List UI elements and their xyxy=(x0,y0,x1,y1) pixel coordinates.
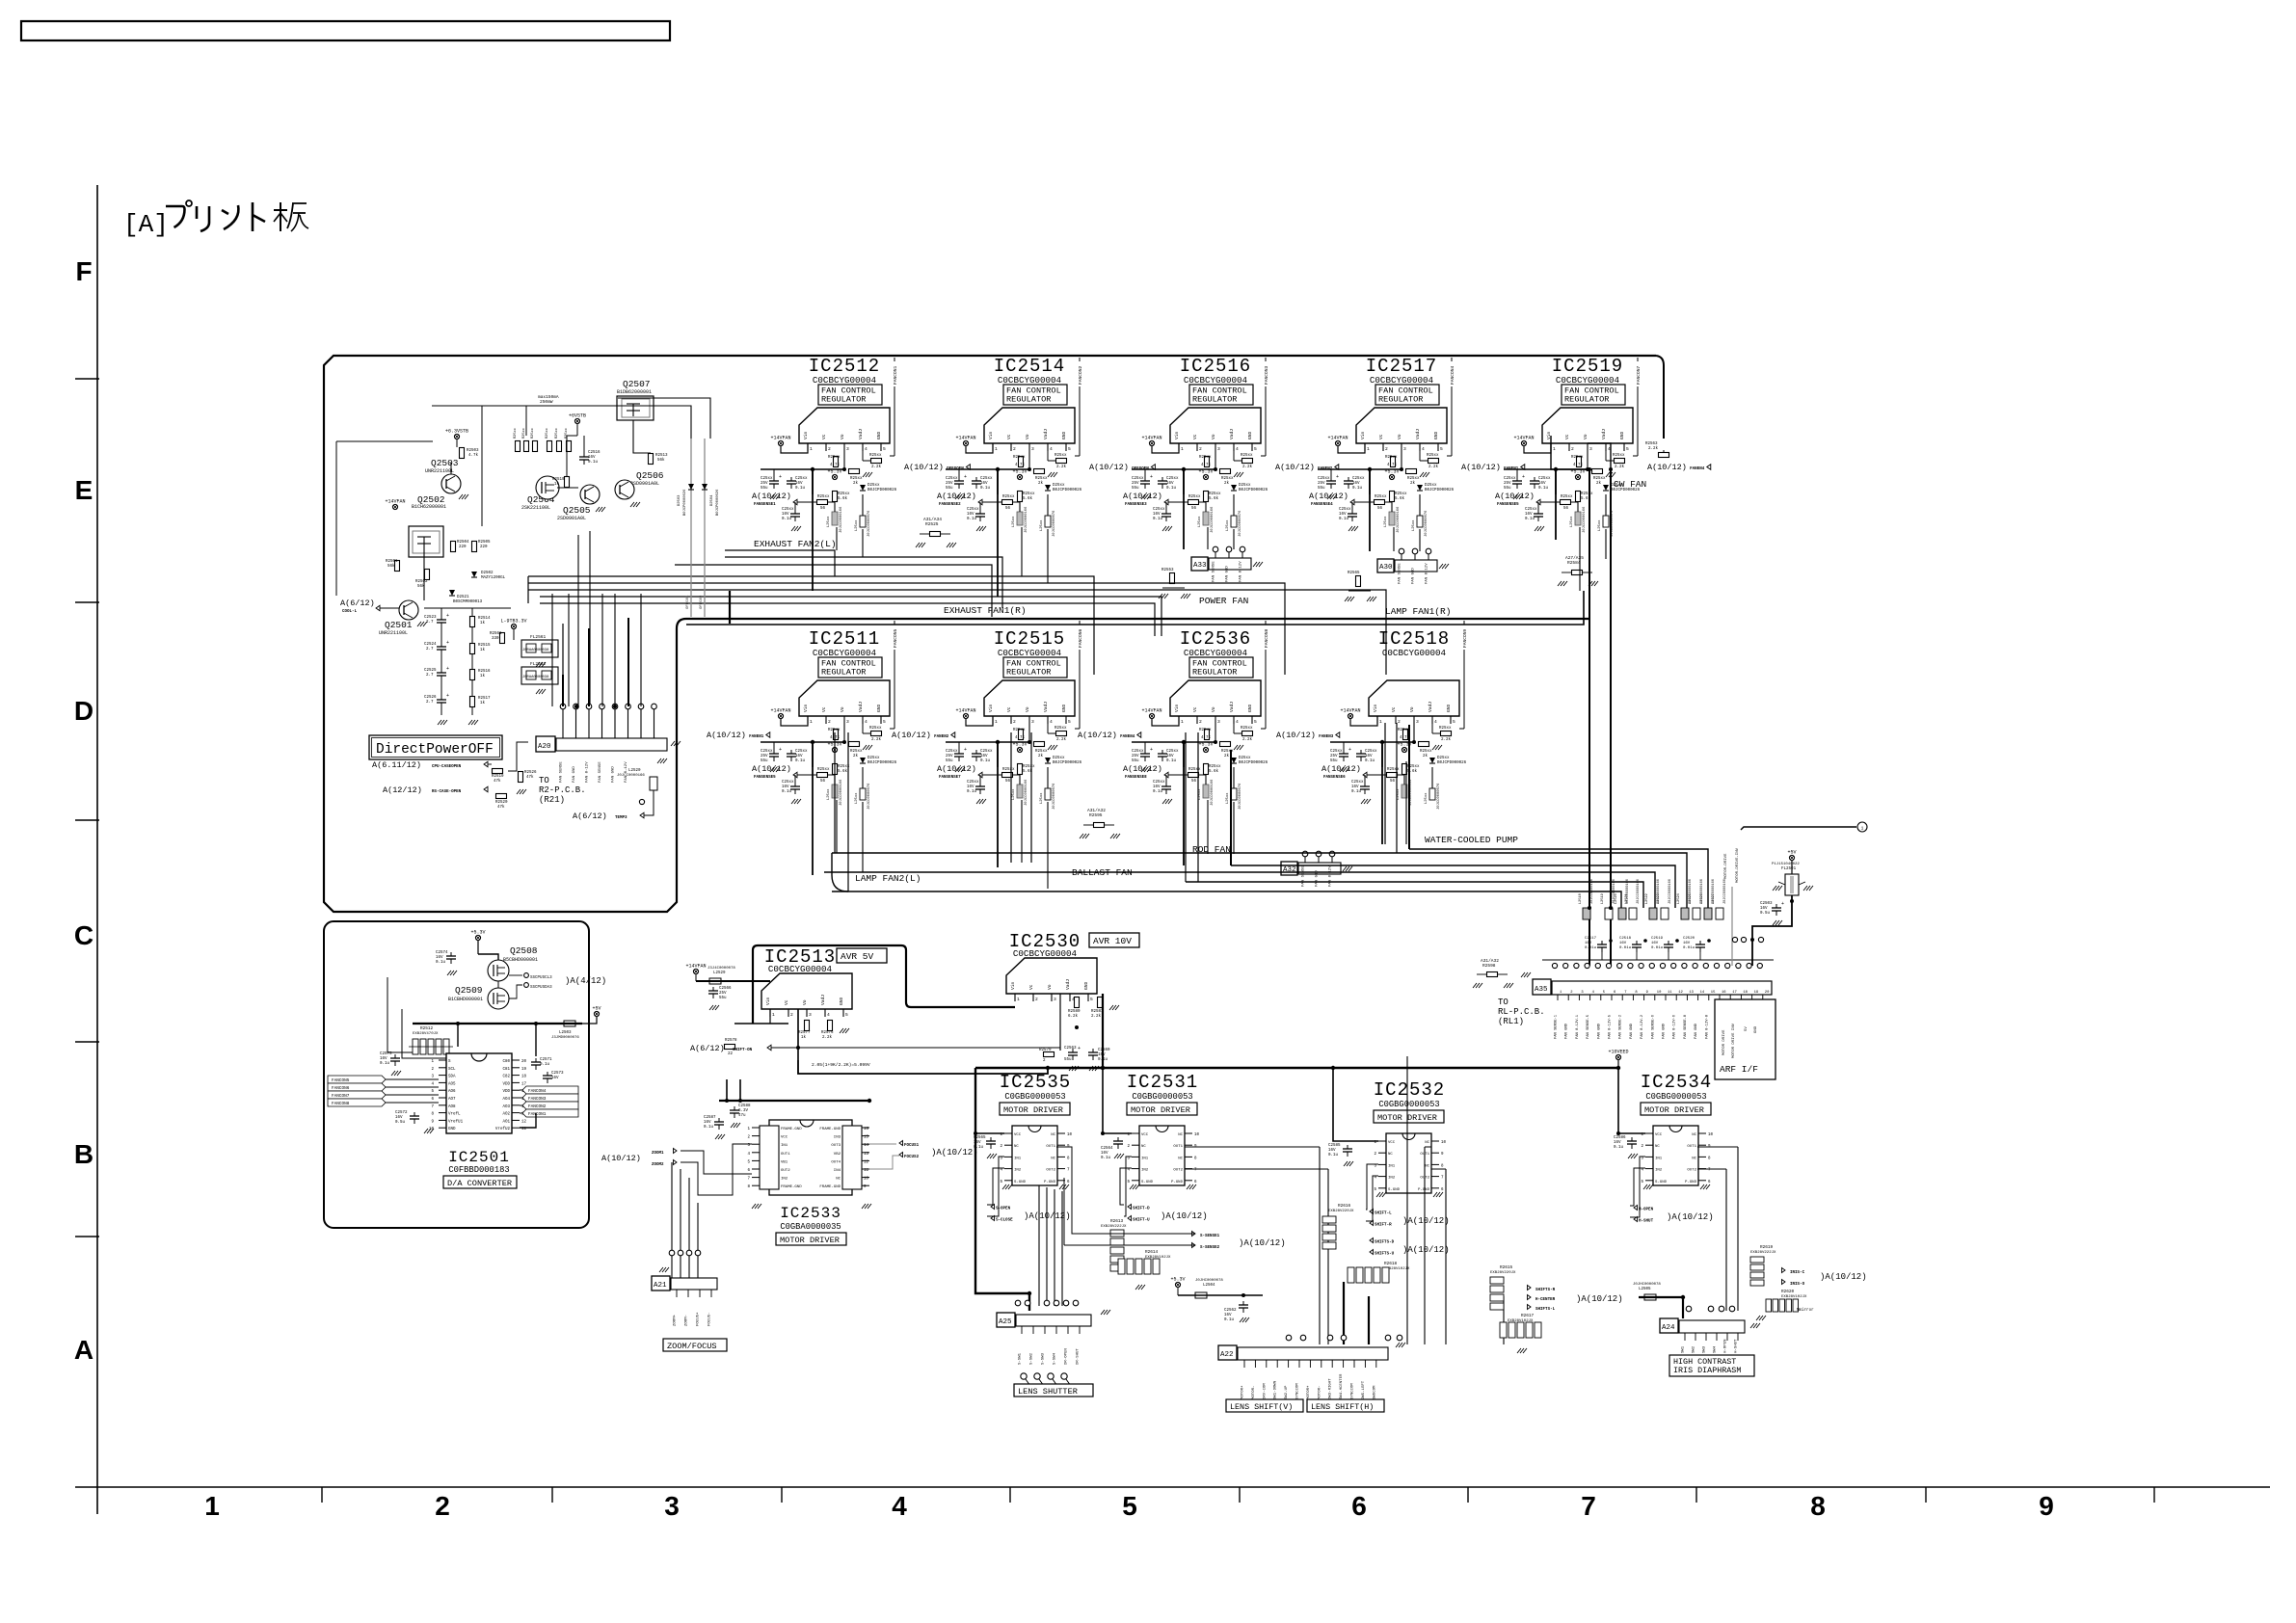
svg-text:2.2k: 2.2k xyxy=(1648,446,1659,451)
svg-text:EXHAUST FAN2(L): EXHAUST FAN2(L) xyxy=(754,539,837,549)
svg-text:Vc: Vc xyxy=(1192,706,1198,712)
svg-text:SW1: SW1 xyxy=(1682,1345,1686,1353)
capacitor C2566 xyxy=(712,987,714,991)
svg-text:C: C xyxy=(74,920,93,950)
resistor IC2514 2.2k xyxy=(1047,451,1049,461)
svg-text:L2503: L2503 xyxy=(559,1031,572,1035)
svg-text:4.7k: 4.7k xyxy=(1201,463,1212,467)
svg-text:C2587: C2587 xyxy=(704,1116,716,1120)
svg-text:L2529: L2529 xyxy=(713,971,726,975)
svg-text:L25xx: L25xx xyxy=(1226,519,1230,531)
svg-text:C2503: C2503 xyxy=(1760,902,1773,906)
wire xyxy=(997,742,999,867)
svg-text:C2574: C2574 xyxy=(436,951,448,955)
IC2533 body xyxy=(769,1120,852,1195)
svg-text:0.1u: 0.1u xyxy=(436,961,446,965)
svg-text:0.1u: 0.1u xyxy=(1153,790,1163,794)
svg-text:16V: 16V xyxy=(1760,907,1768,911)
svg-text:0.1u: 0.1u xyxy=(974,1146,984,1150)
wire xyxy=(423,551,425,600)
svg-text:FAN 8-12V-6: FAN 8-12V-6 xyxy=(1673,1014,1677,1039)
svg-text:R2525: R2525 xyxy=(925,521,939,527)
diode xyxy=(860,485,866,491)
svg-text:16: 16 xyxy=(1722,991,1726,995)
svg-text:C0GBG0000053: C0GBG0000053 xyxy=(1132,1092,1192,1102)
wire IC2532 in loop xyxy=(1366,1164,1378,1210)
svg-text:L25xx: L25xx xyxy=(1570,516,1574,527)
wire zoom bundle xyxy=(681,1151,752,1174)
svg-text:R2553: R2553 xyxy=(1161,569,1174,572)
border corner to R2563 xyxy=(1656,356,1664,439)
svg-text:MAZY1200GL: MAZY1200GL xyxy=(481,576,506,580)
svg-text:Q2501: Q2501 xyxy=(385,620,413,630)
diode xyxy=(1231,485,1237,491)
resistor IC2519 2.2k xyxy=(1605,451,1607,461)
svg-text:Vo: Vo xyxy=(840,706,845,712)
svg-text:5V: 5V xyxy=(1745,1026,1749,1031)
svg-text:0.1u: 0.1u xyxy=(967,518,977,521)
svg-text:L25xx: L25xx xyxy=(1226,792,1230,804)
svg-text:S-SW1: S-SW1 xyxy=(1019,1352,1023,1365)
svg-text:ZOOM+: ZOOM+ xyxy=(674,1314,678,1326)
svg-text:GND: GND xyxy=(1433,431,1439,439)
svg-text:R25xx: R25xx xyxy=(1613,454,1625,458)
svg-text:2.2k: 2.2k xyxy=(1056,465,1067,469)
svg-text:1k: 1k xyxy=(480,648,486,652)
svg-text:0.5u: 0.5u xyxy=(395,1121,406,1125)
svg-text:OUT1: OUT1 xyxy=(1046,1145,1055,1149)
svg-text:+6VSTB: +6VSTB xyxy=(569,413,586,419)
svg-text:J0JCC0000166: J0JCC0000166 xyxy=(1583,506,1587,533)
capacitor 55u xyxy=(1330,469,1332,477)
wire xyxy=(1393,527,1395,551)
power +5V xyxy=(1789,855,1794,860)
svg-text:55u: 55u xyxy=(719,997,727,1000)
svg-text:FANCON9: FANCON9 xyxy=(1462,628,1468,648)
inductor L25xx xyxy=(1417,516,1423,527)
svg-text:LENS SHIFT(V): LENS SHIFT(V) xyxy=(1230,1402,1293,1412)
svg-text:VCC: VCC xyxy=(1014,1133,1022,1137)
svg-text:NC: NC xyxy=(1692,1157,1696,1160)
svg-text:C2519: C2519 xyxy=(1651,937,1664,941)
svg-text:A(10/12): A(10/12) xyxy=(1461,463,1501,472)
svg-text:2: 2 xyxy=(1199,446,1202,452)
svg-text:C2563: C2563 xyxy=(1064,1047,1077,1051)
wire xyxy=(836,800,838,853)
resistor 2k xyxy=(1419,742,1429,747)
svg-text:FANEN2: FANEN2 xyxy=(934,735,949,739)
svg-text:5: 5 xyxy=(883,446,886,452)
svg-text:OUT4: OUT4 xyxy=(831,1160,841,1164)
resistor 5.6k xyxy=(833,492,838,502)
svg-text:Vin: Vin xyxy=(1360,431,1366,439)
svg-text:FL2501: FL2501 xyxy=(1781,867,1797,871)
resistor R2503 xyxy=(460,448,465,459)
svg-text:AVR 10V: AVR 10V xyxy=(1093,936,1132,946)
svg-text:16V: 16V xyxy=(704,1121,711,1125)
svg-text:18: 18 xyxy=(521,1076,527,1079)
wire sense xyxy=(1056,1147,1195,1234)
svg-text:ZOOM2: ZOOM2 xyxy=(652,1163,664,1167)
svg-text:R2514: R2514 xyxy=(478,617,491,621)
svg-text:14: 14 xyxy=(864,1144,869,1148)
resistor 56 xyxy=(1188,773,1199,778)
svg-text:C25xx: C25xx xyxy=(1365,750,1377,754)
inductor L25xx xyxy=(1203,512,1209,525)
svg-text:L2523: L2523 xyxy=(1657,893,1661,904)
svg-text:4: 4 xyxy=(892,1491,907,1521)
svg-text:FANCON2: FANCON2 xyxy=(1078,365,1083,385)
svg-text:FANCON5: FANCON5 xyxy=(332,1078,350,1083)
svg-text:EXB28V102JX: EXB28V102JX xyxy=(1781,1295,1807,1299)
connector A21 xyxy=(652,1276,670,1290)
svg-text:R25xx: R25xx xyxy=(1439,727,1452,731)
svg-text:J0JCC0000166: J0JCC0000166 xyxy=(1397,506,1401,533)
svg-text:Vin: Vin xyxy=(765,997,771,1005)
svg-text:FANCON7: FANCON7 xyxy=(1636,365,1642,385)
junction dot xyxy=(1075,1025,1079,1029)
capacitor 0.1u xyxy=(1165,783,1167,786)
label SHIFTS-D/SHIFTS-U A(10/12) xyxy=(1370,1238,1374,1243)
svg-text:+14VFAN: +14VFAN xyxy=(685,964,706,970)
svg-text:B0SCMM000013: B0SCMM000013 xyxy=(453,600,483,604)
svg-text:FRAME-GND: FRAME-GND xyxy=(819,1128,841,1131)
svg-text:VadJ: VadJ xyxy=(858,429,864,439)
label H-OPEN/H-SHUT A(10/12) xyxy=(1634,1206,1638,1211)
svg-text:J0JCC0000076: J0JCC0000076 xyxy=(1053,783,1056,810)
svg-text:C25xx: C25xx xyxy=(967,781,979,785)
power +14VFAN xyxy=(778,713,783,718)
svg-text:16V: 16V xyxy=(967,513,974,517)
ground xyxy=(752,1204,756,1209)
resistor 5.6k xyxy=(1402,764,1407,775)
wire xyxy=(1047,802,1049,889)
wire left motor bus xyxy=(975,1068,1029,1311)
svg-text:16V: 16V xyxy=(395,1116,403,1120)
wire xyxy=(797,1009,799,1060)
svg-text:3: 3 xyxy=(1589,446,1592,452)
wire iris verticals xyxy=(1725,1169,1727,1311)
ground xyxy=(955,494,959,499)
svg-text:47k: 47k xyxy=(494,779,501,784)
svg-text:Vo: Vo xyxy=(1025,434,1030,439)
svg-text:A(10/12): A(10/12) xyxy=(752,492,791,501)
svg-text:S-GND: S-GND xyxy=(1388,1188,1401,1192)
svg-text:19: 19 xyxy=(1754,991,1759,995)
svg-text:5.6k: 5.6k xyxy=(1023,496,1033,501)
svg-text:C2566: C2566 xyxy=(719,987,732,991)
inductor L25xx xyxy=(832,785,838,798)
net FANCON4 xyxy=(1451,358,1453,456)
svg-text:16V: 16V xyxy=(1619,942,1627,945)
pin circles A21 xyxy=(669,1250,675,1256)
svg-text:1k: 1k xyxy=(801,1035,807,1040)
wire xyxy=(834,732,836,853)
resistor 5.6k xyxy=(1018,764,1023,775)
resistor 56 xyxy=(1188,500,1199,505)
label ZOOM/FOCUS box xyxy=(663,1339,727,1351)
svg-text:VCC: VCC xyxy=(1655,1133,1663,1137)
svg-text:5.6k: 5.6k xyxy=(838,769,848,774)
svg-text:+: + xyxy=(446,613,449,619)
wire OFFG pair xyxy=(690,439,692,617)
wire xyxy=(1185,732,1187,882)
svg-text:B1CBHD000001: B1CBHD000001 xyxy=(448,997,483,1002)
svg-text:C25xx: C25xx xyxy=(1166,477,1179,481)
svg-text:55u: 55u xyxy=(1504,487,1511,491)
svg-text:0.1u: 0.1u xyxy=(782,518,792,521)
net FANCON6 xyxy=(1079,621,1081,729)
resistor 4.7k xyxy=(1413,724,1415,742)
resistor 2k xyxy=(1034,742,1045,747)
svg-text:A(6/12): A(6/12) xyxy=(573,811,607,821)
svg-text:16V: 16V xyxy=(1614,1141,1621,1145)
resistor IC2517 2.2k xyxy=(1419,451,1421,461)
wire fan bus xyxy=(1231,865,1675,908)
svg-text:FAN 8-12V: FAN 8-12V xyxy=(1329,865,1333,887)
svg-text:D25xx: D25xx xyxy=(1437,757,1450,760)
IC2501 DIP body xyxy=(446,1053,512,1133)
resistor 5.6k xyxy=(1204,764,1209,775)
motor power bus thick xyxy=(975,1067,1618,1069)
inductor L25xx xyxy=(1389,512,1395,525)
svg-text:L2505: L2505 xyxy=(1639,1288,1651,1291)
capacitor 0.1u xyxy=(1165,510,1167,514)
svg-text:FAN 8-12V: FAN 8-12V xyxy=(1240,561,1243,582)
svg-text:FANCON8: FANCON8 xyxy=(332,1102,350,1106)
wire xyxy=(1183,469,1185,549)
svg-text:)A(10/12): )A(10/12) xyxy=(1239,1238,1286,1248)
ground xyxy=(657,758,661,763)
svg-text:TEMP3: TEMP3 xyxy=(615,816,627,820)
resistor R2580 xyxy=(1075,998,1080,1008)
svg-text:FANCON6: FANCON6 xyxy=(332,1086,350,1091)
svg-text:A30: A30 xyxy=(1379,564,1393,572)
svg-text:OUT1: OUT1 xyxy=(1173,1145,1183,1149)
svg-text:+: + xyxy=(779,474,782,480)
svg-text:SHIFTS-L: SHIFTS-L xyxy=(1535,1308,1556,1312)
svg-text:1: 1 xyxy=(772,1012,775,1018)
svg-text:R2577: R2577 xyxy=(798,1031,811,1035)
power +5.3V xyxy=(1175,1282,1180,1287)
svg-text:10: 10 xyxy=(1067,1133,1073,1137)
svg-text:J0JCC0000166: J0JCC0000166 xyxy=(617,774,645,778)
wire lens shift horizontals xyxy=(1185,1146,1320,1148)
thick wires into A22 xyxy=(1343,1282,1345,1344)
svg-text:2: 2 xyxy=(1013,719,1016,725)
ARF I/F box xyxy=(1715,999,1775,1079)
wire A20 risers extra xyxy=(551,594,553,706)
label SHIFT-L/SHIFT-R A(10/12) xyxy=(1370,1210,1374,1214)
svg-text:IC2535: IC2535 xyxy=(1000,1072,1071,1093)
svg-text:56: 56 xyxy=(1191,507,1197,511)
net FANCON1-4 tags xyxy=(522,1086,578,1094)
svg-text:2.2k: 2.2k xyxy=(1441,737,1452,742)
ground xyxy=(1504,983,1508,988)
svg-text:0.1u: 0.1u xyxy=(380,1062,390,1066)
svg-text:0.1u: 0.1u xyxy=(1328,1154,1339,1157)
svg-text:4: 4 xyxy=(865,446,868,452)
svg-text:25V: 25V xyxy=(946,482,953,486)
svg-text:C2565: C2565 xyxy=(974,1136,986,1140)
svg-text:C0CBCYG00004: C0CBCYG00004 xyxy=(1184,375,1248,386)
svg-text:0.1u: 0.1u xyxy=(1153,518,1163,521)
svg-text:16V: 16V xyxy=(1351,785,1359,789)
power +5.3V xyxy=(1402,747,1406,752)
svg-text:2: 2 xyxy=(1398,719,1401,725)
wire xyxy=(1183,742,1185,767)
svg-text:11: 11 xyxy=(1668,991,1672,995)
svg-text:2.7: 2.7 xyxy=(426,648,434,652)
wire xyxy=(1381,742,1383,767)
svg-text:1k: 1k xyxy=(554,482,560,487)
svg-text:0.1u: 0.1u xyxy=(1166,759,1177,763)
svg-text:SCL: SCL xyxy=(448,1068,456,1072)
left ruler ticks xyxy=(75,378,99,380)
svg-text:8: 8 xyxy=(1810,1491,1826,1521)
capacitor C2585 xyxy=(1347,1145,1348,1149)
wire shutter bundle xyxy=(1038,1185,1040,1306)
capacitor 55u xyxy=(1144,469,1146,477)
svg-text:A33: A33 xyxy=(1193,562,1207,570)
svg-text:MOTOR-DRIVE: MOTOR-DRIVE xyxy=(1724,853,1728,879)
svg-text:FANSENSE7: FANSENSE7 xyxy=(939,776,961,780)
svg-text:IC2515: IC2515 xyxy=(994,628,1065,650)
svg-text:55u: 55u xyxy=(1318,487,1325,491)
capacitor C2588 xyxy=(734,1106,735,1110)
power +14VFAN xyxy=(1521,440,1526,445)
wire IC2534 in loop xyxy=(1630,1168,1645,1206)
capacitor C2587 xyxy=(718,1118,720,1122)
svg-text:RL-P.C.B.: RL-P.C.B. xyxy=(1498,1007,1545,1017)
capacitor 0.1u xyxy=(794,783,796,786)
wire motor drive gray xyxy=(1731,887,1733,966)
resistor 56 xyxy=(1002,773,1013,778)
wire xyxy=(1030,732,1032,863)
diode D2503 xyxy=(688,484,694,490)
capacitor 0.1u xyxy=(1161,477,1163,481)
svg-text:REGULATOR: REGULATOR xyxy=(1006,668,1051,678)
svg-text:Vo: Vo xyxy=(802,999,808,1005)
svg-text:IN1: IN1 xyxy=(781,1144,788,1148)
svg-text:R2502: R2502 xyxy=(415,580,428,584)
resistor 5.6k xyxy=(833,764,838,775)
svg-text:SDA: SDA xyxy=(448,1076,456,1079)
svg-text:R2598: R2598 xyxy=(1482,963,1496,969)
svg-text:SHIFTS-U: SHIFTS-U xyxy=(1375,1253,1395,1257)
svg-text:0.1u: 0.1u xyxy=(1101,1157,1111,1160)
svg-text:C0CBCYG00004: C0CBCYG00004 xyxy=(998,648,1062,658)
svg-text:ARF I/F: ARF I/F xyxy=(1720,1064,1758,1075)
resistor 2k xyxy=(1592,469,1603,474)
wire +5V rail xyxy=(413,1023,582,1024)
svg-text:UNR221100L: UNR221100L xyxy=(379,630,408,636)
bottom ruler ticks xyxy=(321,1487,323,1503)
svg-text:5.6k: 5.6k xyxy=(1209,769,1219,774)
pin circles A25 xyxy=(1015,1300,1021,1306)
svg-text:5: 5 xyxy=(1254,446,1257,452)
svg-text:J0JCC0000166: J0JCC0000166 xyxy=(1025,506,1028,533)
wire focus to right xyxy=(869,1143,896,1145)
svg-text:0.1u: 0.1u xyxy=(704,1126,714,1130)
diode D2521 xyxy=(449,590,455,596)
svg-text:16V: 16V xyxy=(588,456,596,460)
svg-text:L25xx: L25xx xyxy=(1040,792,1044,804)
svg-text:FAN GND: FAN GND xyxy=(1663,1023,1667,1039)
svg-text:SW6COM: SW6COM xyxy=(1373,1385,1376,1399)
svg-text:1: 1 xyxy=(204,1491,220,1521)
svg-text:16V: 16V xyxy=(1365,755,1373,758)
svg-text:2k: 2k xyxy=(1038,481,1044,486)
svg-text:REGULATOR: REGULATOR xyxy=(1006,395,1051,405)
svg-text:0.5u: 0.5u xyxy=(1760,912,1771,916)
svg-text:+14VFAN: +14VFAN xyxy=(1141,436,1161,441)
svg-text:SW1-DOWN: SW1-DOWN xyxy=(1274,1380,1278,1399)
capacitor 55u xyxy=(1516,469,1518,477)
wire thick IC2530 out xyxy=(1102,994,1104,1068)
svg-text:SHIFT-L: SHIFT-L xyxy=(1375,1212,1392,1216)
svg-text:L25xx: L25xx xyxy=(1598,519,1602,531)
svg-text:0.1u: 0.1u xyxy=(588,461,599,465)
wire bus h1 xyxy=(725,550,835,576)
wire bus h8 xyxy=(540,603,1155,636)
wire thick bus A2 xyxy=(686,591,1584,625)
connector A24 xyxy=(1660,1318,1678,1333)
svg-text:2k: 2k xyxy=(1410,481,1416,486)
resistor 56 xyxy=(1387,773,1398,778)
wire xyxy=(1183,469,1185,494)
svg-text:IC2512: IC2512 xyxy=(809,356,880,377)
svg-text:GND: GND xyxy=(1247,431,1253,439)
resistor R2526 xyxy=(519,772,523,783)
svg-text:4: 4 xyxy=(1050,446,1053,452)
wire fan bus xyxy=(824,872,1655,908)
svg-text:IN2: IN2 xyxy=(1655,1169,1663,1173)
svg-text:2.2k: 2.2k xyxy=(1242,737,1253,742)
power +5.3V xyxy=(1017,474,1022,479)
capacitor C2571 xyxy=(535,1058,537,1062)
svg-text:R25xx: R25xx xyxy=(817,495,830,499)
svg-text:VB1: VB1 xyxy=(781,1160,788,1164)
svg-text:L25xx: L25xx xyxy=(827,516,831,527)
svg-text:2SD0901A0L: 2SD0901A0L xyxy=(557,516,586,521)
svg-text:)A(10/12): )A(10/12) xyxy=(931,1148,978,1157)
svg-text:SYNCCOM: SYNCCOM xyxy=(1351,1383,1355,1399)
svg-text:+5.3V: +5.3V xyxy=(1012,742,1027,748)
svg-text:12: 12 xyxy=(864,1160,869,1164)
svg-text:4.7k: 4.7k xyxy=(830,463,841,467)
svg-text:Vo: Vo xyxy=(1211,434,1216,439)
svg-text:+: + xyxy=(1150,474,1153,480)
svg-text:R25xx: R25xx xyxy=(1188,768,1201,772)
svg-text:56: 56 xyxy=(1377,507,1383,511)
svg-text:SHIFTS-D: SHIFTS-D xyxy=(1375,1241,1395,1245)
wire CW fan vertical 2 xyxy=(1610,469,1612,966)
ground xyxy=(1253,562,1257,567)
svg-text:IN2: IN2 xyxy=(781,1178,788,1182)
svg-text:C25xx: C25xx xyxy=(1330,750,1343,754)
svg-text:R25xx: R25xx xyxy=(828,456,841,460)
svg-text:REGULATOR: REGULATOR xyxy=(1564,395,1609,405)
svg-text:L2522: L2522 xyxy=(1645,893,1649,904)
svg-text:R25xx: R25xx xyxy=(514,428,518,439)
svg-text:Vc: Vc xyxy=(1192,434,1198,439)
wire lens shift bundle vertical xyxy=(1319,1147,1321,1344)
svg-text:11: 11 xyxy=(864,1169,869,1173)
svg-text:1: 1 xyxy=(1379,719,1382,725)
svg-text:10: 10 xyxy=(1441,1141,1447,1145)
svg-text:15: 15 xyxy=(1711,991,1716,995)
